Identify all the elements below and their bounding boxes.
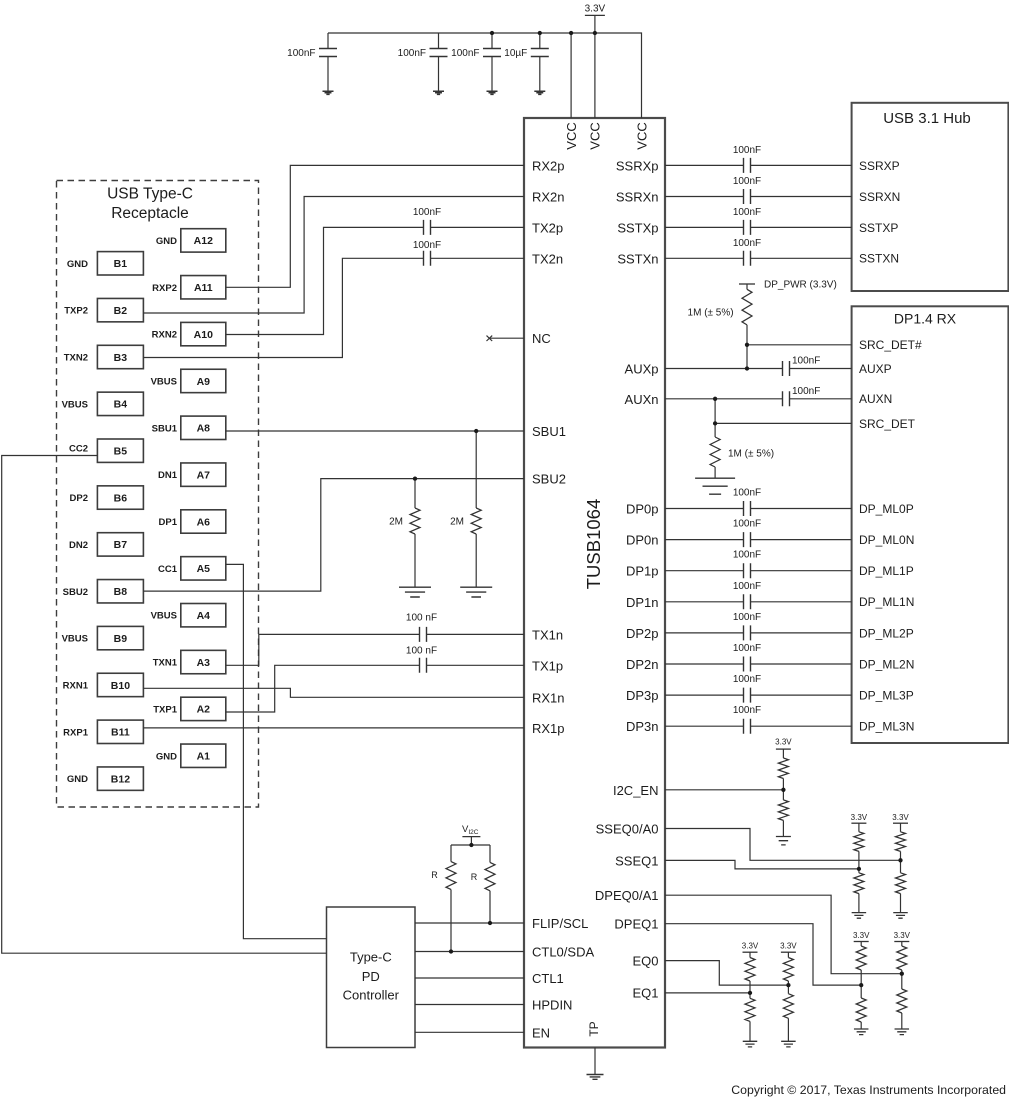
svg-text:DPEQ1: DPEQ1 — [614, 917, 658, 932]
svg-text:Copyright © 2017, Texas Instru: Copyright © 2017, Texas Instruments Inco… — [731, 1083, 1006, 1097]
svg-text:B9: B9 — [114, 633, 128, 645]
svg-text:A11: A11 — [194, 282, 213, 294]
svg-text:FLIP/SCL: FLIP/SCL — [532, 916, 588, 931]
svg-text:EQ0: EQ0 — [632, 954, 658, 969]
svg-text:DP1p: DP1p — [626, 564, 659, 579]
svg-text:AUXp: AUXp — [625, 362, 659, 377]
svg-text:B4: B4 — [114, 399, 128, 411]
svg-text:DPEQ0/A1: DPEQ0/A1 — [595, 888, 659, 903]
svg-text:DP1n: DP1n — [626, 595, 659, 610]
svg-text:DP1.4 RX: DP1.4 RX — [894, 311, 957, 327]
svg-text:SBU2: SBU2 — [532, 472, 566, 487]
svg-text:3.3V: 3.3V — [780, 942, 797, 951]
svg-text:RXN2: RXN2 — [152, 330, 177, 341]
svg-text:DP2: DP2 — [70, 493, 88, 504]
svg-text:DP2n: DP2n — [626, 657, 659, 672]
svg-text:RX2n: RX2n — [532, 190, 565, 205]
svg-text:SSTXp: SSTXp — [617, 220, 658, 235]
svg-text:DP_ML0N: DP_ML0N — [859, 533, 914, 547]
svg-text:RXP1: RXP1 — [63, 727, 89, 738]
svg-text:VBUS: VBUS — [151, 611, 177, 622]
svg-text:SBU2: SBU2 — [63, 587, 88, 598]
svg-text:RXP2: RXP2 — [152, 283, 177, 294]
svg-text:CTL1: CTL1 — [532, 971, 564, 986]
svg-text:DN1: DN1 — [158, 470, 178, 481]
svg-text:TUSB1064: TUSB1064 — [583, 499, 604, 590]
svg-text:DP2p: DP2p — [626, 626, 659, 641]
svg-text:SSRXN: SSRXN — [859, 190, 900, 204]
svg-text:B12: B12 — [111, 773, 130, 785]
svg-text:GND: GND — [156, 751, 177, 762]
svg-text:A2: A2 — [197, 704, 211, 716]
svg-text:DP1: DP1 — [159, 517, 178, 528]
svg-text:DP_ML1N: DP_ML1N — [859, 595, 914, 609]
svg-text:TXN2: TXN2 — [64, 353, 88, 364]
svg-text:VCC: VCC — [634, 122, 649, 149]
svg-text:SRC_DET: SRC_DET — [859, 417, 916, 431]
svg-text:Receptacle: Receptacle — [111, 205, 189, 222]
svg-text:100nF: 100nF — [792, 386, 820, 397]
svg-text:A8: A8 — [197, 423, 211, 435]
svg-text:100nF: 100nF — [733, 238, 761, 249]
svg-text:100 nF: 100 nF — [406, 613, 437, 624]
svg-text:TX1p: TX1p — [532, 658, 563, 673]
svg-text:DP3p: DP3p — [626, 688, 659, 703]
svg-text:GND: GND — [67, 259, 88, 270]
svg-text:100nF: 100nF — [398, 48, 426, 59]
svg-text:DN2: DN2 — [69, 540, 88, 551]
svg-text:DP_ML3P: DP_ML3P — [859, 689, 914, 703]
svg-text:100nF: 100nF — [733, 519, 761, 530]
svg-text:2M: 2M — [450, 517, 464, 528]
svg-text:SSTXN: SSTXN — [859, 252, 899, 266]
svg-text:B10: B10 — [111, 680, 130, 692]
svg-text:TX2n: TX2n — [532, 251, 563, 266]
svg-text:1M (± 5%): 1M (± 5%) — [728, 449, 774, 460]
svg-text:DP_ML2N: DP_ML2N — [859, 657, 914, 671]
svg-text:PD: PD — [362, 969, 380, 984]
svg-text:100nF: 100nF — [413, 240, 441, 251]
svg-text:TX1n: TX1n — [532, 627, 563, 642]
svg-text:EN: EN — [532, 1025, 550, 1040]
svg-text:100 nF: 100 nF — [406, 646, 437, 657]
svg-text:100nF: 100nF — [733, 643, 761, 654]
svg-text:EQ1: EQ1 — [632, 986, 658, 1001]
svg-text:RX1n: RX1n — [532, 690, 565, 705]
svg-text:CC2: CC2 — [69, 444, 88, 455]
svg-text:SSTXn: SSTXn — [617, 251, 658, 266]
svg-text:100nF: 100nF — [287, 48, 315, 59]
svg-text:100nF: 100nF — [413, 207, 441, 218]
svg-text:TX2p: TX2p — [532, 220, 563, 235]
svg-text:100nF: 100nF — [733, 145, 761, 156]
svg-text:USB 3.1 Hub: USB 3.1 Hub — [883, 110, 971, 127]
svg-text:HPDIN: HPDIN — [532, 998, 572, 1013]
svg-text:A1: A1 — [197, 751, 211, 763]
svg-text:DP_ML1P: DP_ML1P — [859, 564, 914, 578]
svg-text:USB Type-C: USB Type-C — [107, 186, 193, 203]
svg-text:100nF: 100nF — [733, 581, 761, 592]
svg-text:3.3V: 3.3V — [892, 813, 909, 822]
svg-text:100nF: 100nF — [451, 48, 479, 59]
svg-text:A5: A5 — [197, 563, 211, 575]
svg-text:SBU1: SBU1 — [532, 424, 566, 439]
svg-text:B11: B11 — [111, 727, 130, 739]
svg-text:100nF: 100nF — [733, 674, 761, 685]
svg-text:TXN1: TXN1 — [153, 658, 178, 669]
svg-text:SSEQ0/A0: SSEQ0/A0 — [596, 822, 659, 837]
svg-text:I2C_EN: I2C_EN — [613, 783, 659, 798]
svg-text:Type-C: Type-C — [350, 950, 392, 965]
svg-text:3.3V: 3.3V — [851, 813, 868, 822]
svg-text:VCC: VCC — [564, 122, 579, 149]
svg-text:DP3n: DP3n — [626, 719, 659, 734]
svg-text:SSRXp: SSRXp — [616, 158, 659, 173]
svg-text:100nF: 100nF — [733, 176, 761, 187]
svg-text:1M (± 5%): 1M (± 5%) — [688, 308, 734, 319]
svg-text:CTL0/SDA: CTL0/SDA — [532, 945, 594, 960]
svg-text:DP0p: DP0p — [626, 502, 659, 517]
svg-text:B6: B6 — [114, 492, 128, 504]
svg-text:3.3V: 3.3V — [775, 738, 792, 747]
svg-text:A12: A12 — [194, 235, 213, 247]
svg-text:AUXn: AUXn — [625, 392, 659, 407]
svg-text:GND: GND — [156, 236, 177, 247]
svg-text:CC1: CC1 — [158, 564, 178, 575]
svg-text:A3: A3 — [197, 657, 211, 669]
svg-text:TXP2: TXP2 — [64, 306, 88, 317]
svg-text:RX2p: RX2p — [532, 158, 565, 173]
svg-text:B5: B5 — [114, 446, 128, 458]
svg-text:SSTXP: SSTXP — [859, 221, 898, 235]
svg-text:VCC: VCC — [588, 122, 603, 149]
svg-text:RX1p: RX1p — [532, 721, 565, 736]
svg-text:B3: B3 — [114, 352, 128, 364]
svg-text:10µF: 10µF — [504, 48, 527, 59]
svg-text:2M: 2M — [389, 517, 403, 528]
svg-text:SSRXn: SSRXn — [616, 190, 659, 205]
svg-text:3.3V: 3.3V — [853, 931, 870, 940]
svg-text:SSEQ1: SSEQ1 — [615, 853, 658, 868]
svg-text:A10: A10 — [194, 329, 213, 341]
svg-text:DP_ML2P: DP_ML2P — [859, 626, 914, 640]
svg-text:3.3V: 3.3V — [894, 931, 911, 940]
svg-text:VBUS: VBUS — [62, 399, 88, 410]
svg-text:100nF: 100nF — [733, 207, 761, 218]
svg-text:SRC_DET#: SRC_DET# — [859, 338, 922, 352]
svg-text:B2: B2 — [114, 305, 128, 317]
svg-text:3.3V: 3.3V — [585, 4, 606, 15]
svg-text:100nF: 100nF — [792, 356, 820, 367]
svg-text:B1: B1 — [114, 258, 128, 270]
svg-text:AUXP: AUXP — [859, 362, 892, 376]
svg-text:NC: NC — [532, 331, 551, 346]
svg-text:R: R — [431, 870, 438, 880]
svg-text:100nF: 100nF — [733, 612, 761, 623]
svg-text:DP_ML3N: DP_ML3N — [859, 720, 914, 734]
svg-text:B8: B8 — [114, 586, 128, 598]
svg-text:B7: B7 — [114, 539, 128, 551]
svg-text:AUXN: AUXN — [859, 392, 892, 406]
svg-text:DP_PWR (3.3V): DP_PWR (3.3V) — [764, 280, 837, 291]
svg-text:VBUS: VBUS — [62, 634, 88, 645]
svg-text:A4: A4 — [197, 610, 211, 622]
svg-text:A6: A6 — [197, 516, 211, 528]
svg-text:100nF: 100nF — [733, 705, 761, 716]
svg-text:RXN1: RXN1 — [63, 680, 89, 691]
svg-text:TXP1: TXP1 — [153, 704, 177, 715]
svg-text:TP: TP — [587, 1021, 601, 1036]
svg-text:100nF: 100nF — [733, 550, 761, 561]
svg-text:SBU1: SBU1 — [152, 423, 178, 434]
svg-text:R: R — [471, 872, 478, 882]
svg-text:DP0n: DP0n — [626, 533, 659, 548]
svg-text:SSRXP: SSRXP — [859, 159, 900, 173]
svg-text:Controller: Controller — [343, 988, 400, 1003]
svg-text:VBUS: VBUS — [151, 376, 177, 387]
svg-text:100nF: 100nF — [733, 488, 761, 499]
svg-text:A9: A9 — [197, 376, 211, 388]
svg-text:A7: A7 — [197, 469, 211, 481]
svg-text:DP_ML0P: DP_ML0P — [859, 502, 914, 516]
svg-text:3.3V: 3.3V — [742, 942, 759, 951]
svg-text:GND: GND — [67, 774, 88, 785]
